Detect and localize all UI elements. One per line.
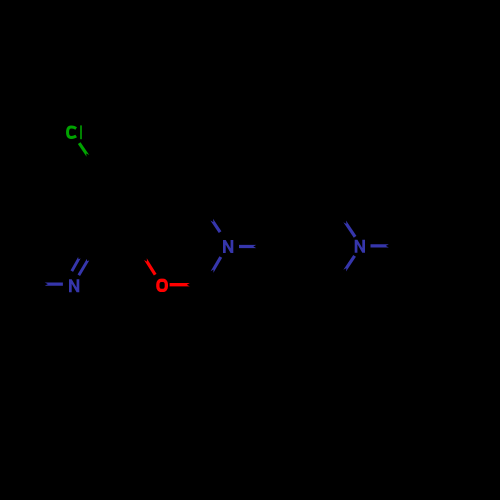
bond Cl-C6 green half — [78, 142, 89, 157]
wire bond Cl-C6 black half — [88, 156, 96, 168]
bond N3-C6pip blue half — [343, 255, 356, 271]
bond N2-CH2 blue half — [211, 256, 223, 273]
wire bond N3-phenyl black half — [389, 244, 408, 247]
atom N1 label (imine nitrogen) — [69, 279, 79, 292]
wire bond C7-C8 ring A — [138, 144, 180, 168]
wire bond C8a-C4a — [156, 206, 204, 209]
wire bond C4a-C4b — [136, 208, 156, 245]
bond N3-C2pip blue half — [343, 221, 356, 238]
wire bond N2-C4pip black half — [257, 245, 274, 248]
wire bond N1=C2 black halves — [80, 244, 87, 257]
wire bond O-CH2 black half — [190, 283, 207, 287]
invisible carbon skeleton (black on black) — [27, 144, 499, 288]
atom N2 label (oxazine nitrogen) — [223, 240, 233, 253]
wire bond C8-C8a ring A — [180, 168, 204, 208]
wire piperidine ring bonds — [273, 206, 297, 247]
bond O-C4b red half — [144, 258, 157, 275]
wire bond C6-C7 ring A — [96, 144, 138, 168]
wire bond O-C4b black half — [136, 244, 145, 259]
wire bond N2-C8a black half — [204, 208, 212, 220]
wire bond C4b-C(imine) — [97, 242, 135, 245]
bond N3-phenyl blue half — [371, 244, 389, 247]
atom N3 label (piperidine nitrogen) — [355, 240, 365, 253]
bond N1=C2 double blue halves — [71, 257, 81, 272]
atom Cl label — [68, 127, 77, 137]
wire bond CH3-N1 black half — [27, 283, 44, 286]
bond N2-C4pip blue half — [239, 245, 256, 248]
wire phenyl ring bonds — [408, 204, 432, 246]
bond O-CH2 red half — [170, 283, 190, 286]
bond N2-C8a blue half — [210, 219, 221, 233]
wire bond C4a-C5 — [96, 168, 156, 208]
atom O label — [158, 280, 167, 290]
bond N1-CH3 blue half — [45, 283, 63, 286]
wire bond CH2-N2 black half — [207, 272, 212, 285]
